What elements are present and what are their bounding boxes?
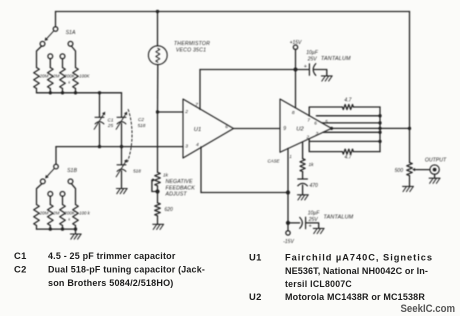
wire: jack to ground xyxy=(434,174,436,178)
switch S1B contact 1 xyxy=(40,179,45,184)
svg-text:Fairchild µA740C, Signetics: Fairchild µA740C, Signetics xyxy=(285,251,433,262)
wire: cap to ground (top) xyxy=(314,70,327,76)
wire: U2 output apex line to output node xyxy=(332,127,410,129)
terminal +15V xyxy=(293,45,297,49)
svg-text:CASE: CASE xyxy=(268,158,280,163)
wire: drop to S1B pivot xyxy=(55,147,57,165)
pot wiper tied to bottom (rheostat) xyxy=(151,179,154,181)
wire: top bracket to bus xyxy=(353,106,380,108)
svg-text:7: 7 xyxy=(307,118,310,123)
switch S1B arm xyxy=(47,168,54,176)
svg-text:OUTPUT: OUTPUT xyxy=(425,158,447,164)
svg-text:VECO 35C1: VECO 35C1 xyxy=(176,48,206,54)
wire: pot to ground xyxy=(409,176,411,187)
resistor S1B range R6 xyxy=(48,205,54,226)
node: C1 bottom xyxy=(98,145,101,148)
svg-text:C1: C1 xyxy=(108,117,114,122)
wire: bottom cap to ground xyxy=(306,223,319,229)
node: +15V junction xyxy=(294,68,298,72)
svg-text:C1: C1 xyxy=(14,250,27,261)
wire: S1B contact 2 to resistor xyxy=(49,196,51,204)
node: apex dot xyxy=(330,127,333,130)
wire: C2b to ground xyxy=(121,171,123,189)
resistor S1A range R3 xyxy=(60,68,66,89)
svg-text:20M: 20M xyxy=(39,74,49,79)
svg-text:2M: 2M xyxy=(52,74,60,79)
wire: right vertical from top rail to output node xyxy=(409,12,411,163)
svg-text:U2: U2 xyxy=(296,127,304,133)
wire: C2a bottom xyxy=(121,123,123,146)
wire: C1 top xyxy=(99,93,101,118)
svg-text:son Brothers 5084/2/518HO): son Brothers 5084/2/518HO) xyxy=(48,277,174,288)
wire: feedback node down to pot (crosses pin3 rail, no connection) xyxy=(157,112,159,172)
wire: S1A contact 2 to resistor xyxy=(49,59,51,68)
svg-text:20M: 20M xyxy=(39,211,49,216)
resistor S1A range R4 xyxy=(73,68,79,89)
svg-text:100 k: 100 k xyxy=(79,211,91,216)
switch S1B contact 4 xyxy=(68,179,73,184)
arrow through C2a xyxy=(116,114,125,129)
ground (jack) xyxy=(429,177,440,179)
svg-text:10µF: 10µF xyxy=(308,211,320,217)
svg-text:7: 7 xyxy=(195,102,198,108)
wire: +15V rail xyxy=(200,69,309,71)
wire: U2 compensation stub xyxy=(302,142,304,159)
wire: U2 pin7 bracket top xyxy=(309,107,342,116)
potentiometer 1k negative feedback adjust xyxy=(155,172,161,186)
svg-text:620: 620 xyxy=(165,207,174,213)
svg-text:k: k xyxy=(68,81,70,85)
wire: 1k to 470 cap xyxy=(302,172,304,179)
wire: U1 pin 7 to +15V rail xyxy=(199,70,201,110)
resistor S1B range R5 xyxy=(34,205,40,226)
wire: -15V rail xyxy=(201,192,288,194)
svg-text:10µF: 10µF xyxy=(306,50,318,56)
svg-text:25V: 25V xyxy=(307,56,318,62)
svg-text:8: 8 xyxy=(292,110,295,116)
op-amp U1 xyxy=(183,99,234,158)
wire: S1A contact 4 to resistor xyxy=(71,46,75,68)
svg-text:NEGATIVE: NEGATIVE xyxy=(166,179,194,185)
ground (500 pot) xyxy=(403,185,414,187)
svg-text:C2: C2 xyxy=(14,263,27,274)
resistor S1A range R2 xyxy=(48,68,54,89)
svg-text:+15V: +15V xyxy=(290,40,302,46)
wire: S1A contact 1 to resistor xyxy=(37,46,42,68)
wire: U2 pin 5 line xyxy=(322,122,380,124)
svg-text:1k: 1k xyxy=(309,162,315,168)
svg-text:THERMISTOR: THERMISTOR xyxy=(174,41,210,47)
svg-text:tersil ICL8007C: tersil ICL8007C xyxy=(285,278,352,289)
svg-text:500: 500 xyxy=(395,168,404,174)
wire: pot to 620 xyxy=(157,192,159,203)
svg-text:FEEDBACK: FEEDBACK xyxy=(166,185,196,191)
resistor 1k (U2) xyxy=(300,159,305,172)
resistor S1A range R1 xyxy=(34,68,40,89)
wire: U2 pin 2 line xyxy=(310,140,380,142)
wire: C2b top xyxy=(121,147,123,165)
capacitor C2 section A xyxy=(117,116,126,118)
wire: U2 pin2 bracket bottom xyxy=(309,139,342,152)
wire: S1B rail to ground xyxy=(75,229,77,234)
resistor S1B range R8 xyxy=(73,205,79,226)
node: bus junction dots xyxy=(378,114,381,117)
svg-text:4.7: 4.7 xyxy=(344,98,351,104)
svg-text:470: 470 xyxy=(310,183,319,189)
wire: U2 pin 3 line xyxy=(323,131,380,133)
switch S1A pivot xyxy=(53,27,58,32)
thermistor VECO 35C1 xyxy=(148,46,167,65)
switch S1B contact 3 xyxy=(60,192,65,197)
resistor 4.7 (bottom) xyxy=(342,149,353,154)
ground (620) xyxy=(153,223,164,225)
wire: top feedback rail xyxy=(56,11,410,13)
svg-text:518: 518 xyxy=(138,123,146,128)
svg-text:TANTALUM: TANTALUM xyxy=(321,56,351,62)
svg-text:6: 6 xyxy=(314,120,317,125)
svg-text:4.7: 4.7 xyxy=(345,155,352,161)
node: -15V rail / pin1 junction xyxy=(286,190,290,194)
wire: thermistor to pin2 node xyxy=(157,65,159,112)
svg-text:C2: C2 xyxy=(138,117,144,122)
switch S1A contact 2 xyxy=(48,54,53,59)
svg-text:3: 3 xyxy=(185,144,188,150)
svg-text:k: k xyxy=(68,218,70,222)
ground (C2b) xyxy=(116,188,127,190)
wire: 470 to ground xyxy=(302,185,304,195)
svg-text:U2: U2 xyxy=(249,291,262,302)
node: C2a bottom xyxy=(120,145,123,148)
svg-text:Dual 518-pF tuning capacitor (: Dual 518-pF tuning capacitor (Jack- xyxy=(48,263,205,274)
svg-text:U1: U1 xyxy=(249,251,262,262)
svg-text:Motorola MC1438R or MC1538R: Motorola MC1438R or MC1538R xyxy=(285,291,425,302)
svg-text:200K: 200K xyxy=(63,74,76,79)
wire: bottom bracket to bus xyxy=(353,151,380,153)
wire: top rail to thermistor xyxy=(157,12,159,46)
resistor 620 xyxy=(155,203,161,216)
wire: drop to S1A pivot xyxy=(55,12,57,27)
node: pin2 junction xyxy=(156,110,159,113)
arrow through C2b xyxy=(116,162,125,177)
wire: 620 to ground xyxy=(157,216,159,225)
svg-text:9: 9 xyxy=(283,126,286,132)
wire: to U1 pin 2 xyxy=(158,111,184,113)
wire: output bus vertical xyxy=(379,107,381,152)
wire: +15V terminal stem xyxy=(295,49,297,69)
capacitor C1 trimmer xyxy=(95,116,104,118)
wire: C2 section A top (corner from rail) xyxy=(121,93,123,118)
switch S1A contact 4 xyxy=(68,41,73,46)
svg-text:100K: 100K xyxy=(79,74,90,79)
svg-text:+: + xyxy=(304,64,307,70)
wire: rail to U1 pin 3 xyxy=(56,146,183,148)
potentiometer 500 xyxy=(407,163,413,176)
arrow through C1 xyxy=(94,114,103,129)
wire: U2 case pin 1 to -15V rail xyxy=(287,148,289,192)
svg-text:3: 3 xyxy=(316,131,319,136)
wire: S1B contact 4 to resistor xyxy=(71,184,75,205)
node: top-rail / thermistor junction xyxy=(156,10,159,13)
wire: -15V vertical xyxy=(287,193,289,231)
svg-text:25V: 25V xyxy=(308,217,319,223)
pot 500 wiper to output jack xyxy=(414,169,417,171)
ground (S1B) xyxy=(70,233,81,235)
node: pot bottom junction xyxy=(155,189,159,193)
wire: U1 pin 4 to -15V rail xyxy=(200,147,202,193)
node: -15V bypass junction xyxy=(286,221,290,225)
op-amp U2 xyxy=(280,99,332,152)
svg-text:1: 1 xyxy=(289,154,291,159)
svg-text:S1B: S1B xyxy=(67,168,77,174)
svg-text:6: 6 xyxy=(225,124,228,130)
svg-text:4: 4 xyxy=(196,142,199,148)
capacitor 470 xyxy=(298,178,308,180)
wire: S1A resistor common rail xyxy=(37,92,122,94)
svg-text:U1: U1 xyxy=(194,127,201,133)
svg-text:TANTALUM: TANTALUM xyxy=(324,214,354,220)
svg-text:-15V: -15V xyxy=(283,239,294,245)
gang link dashed between C2 sections xyxy=(128,110,132,162)
wire: +15V to U2 pin 8 xyxy=(295,70,297,108)
ground (470) xyxy=(298,194,309,196)
svg-text:+: + xyxy=(309,224,312,230)
node: rail dots xyxy=(49,91,52,94)
svg-text:2: 2 xyxy=(184,109,188,115)
svg-text:NE536T, National NH0042C or In: NE536T, National NH0042C or In- xyxy=(285,265,428,276)
wire: U2 pin 6 line xyxy=(316,115,380,117)
svg-text:1k: 1k xyxy=(163,173,169,179)
wire: U1 output to U2 input xyxy=(234,128,281,130)
connector OUTPUT jack xyxy=(430,165,439,174)
wire: S1B contact 1 to resistor xyxy=(37,184,43,205)
terminal -15V xyxy=(286,231,290,235)
svg-text:SeekIC.com: SeekIC.com xyxy=(401,303,456,315)
svg-text:25: 25 xyxy=(107,123,114,128)
resistor 4.7 (top) xyxy=(342,105,353,110)
ground (bottom cap) xyxy=(313,227,324,229)
switch S1B pivot xyxy=(54,164,59,169)
wire: S1B resistor common rail xyxy=(37,228,76,230)
wire: S1B contact 3 to resistor xyxy=(62,196,64,204)
ground (top cap) xyxy=(321,75,332,77)
capacitor C2 section B xyxy=(117,164,126,166)
switch S1A contact 1 xyxy=(40,41,45,46)
switch S1A contact 3 xyxy=(60,54,65,59)
svg-text:518: 518 xyxy=(133,168,141,173)
svg-text:4.5 - 25 pF trimmer capacitor: 4.5 - 25 pF trimmer capacitor xyxy=(48,250,176,261)
switch S1B contact 2 xyxy=(48,192,53,197)
resistor S1B range R7 xyxy=(60,205,66,226)
svg-text:2M: 2M xyxy=(52,211,60,216)
svg-text:ADJUST: ADJUST xyxy=(165,192,188,198)
node: output junction xyxy=(408,127,411,130)
svg-text:S1A: S1A xyxy=(66,30,76,36)
capacitor 10uF 25V tantalum (bottom) xyxy=(288,222,300,224)
svg-text:200K: 200K xyxy=(63,211,76,216)
node: S1B rail dots xyxy=(49,227,52,230)
wire: C1 bottom xyxy=(99,123,101,146)
wire: S1A contact 3 to resistor xyxy=(62,59,64,68)
switch S1A arm xyxy=(47,31,54,39)
